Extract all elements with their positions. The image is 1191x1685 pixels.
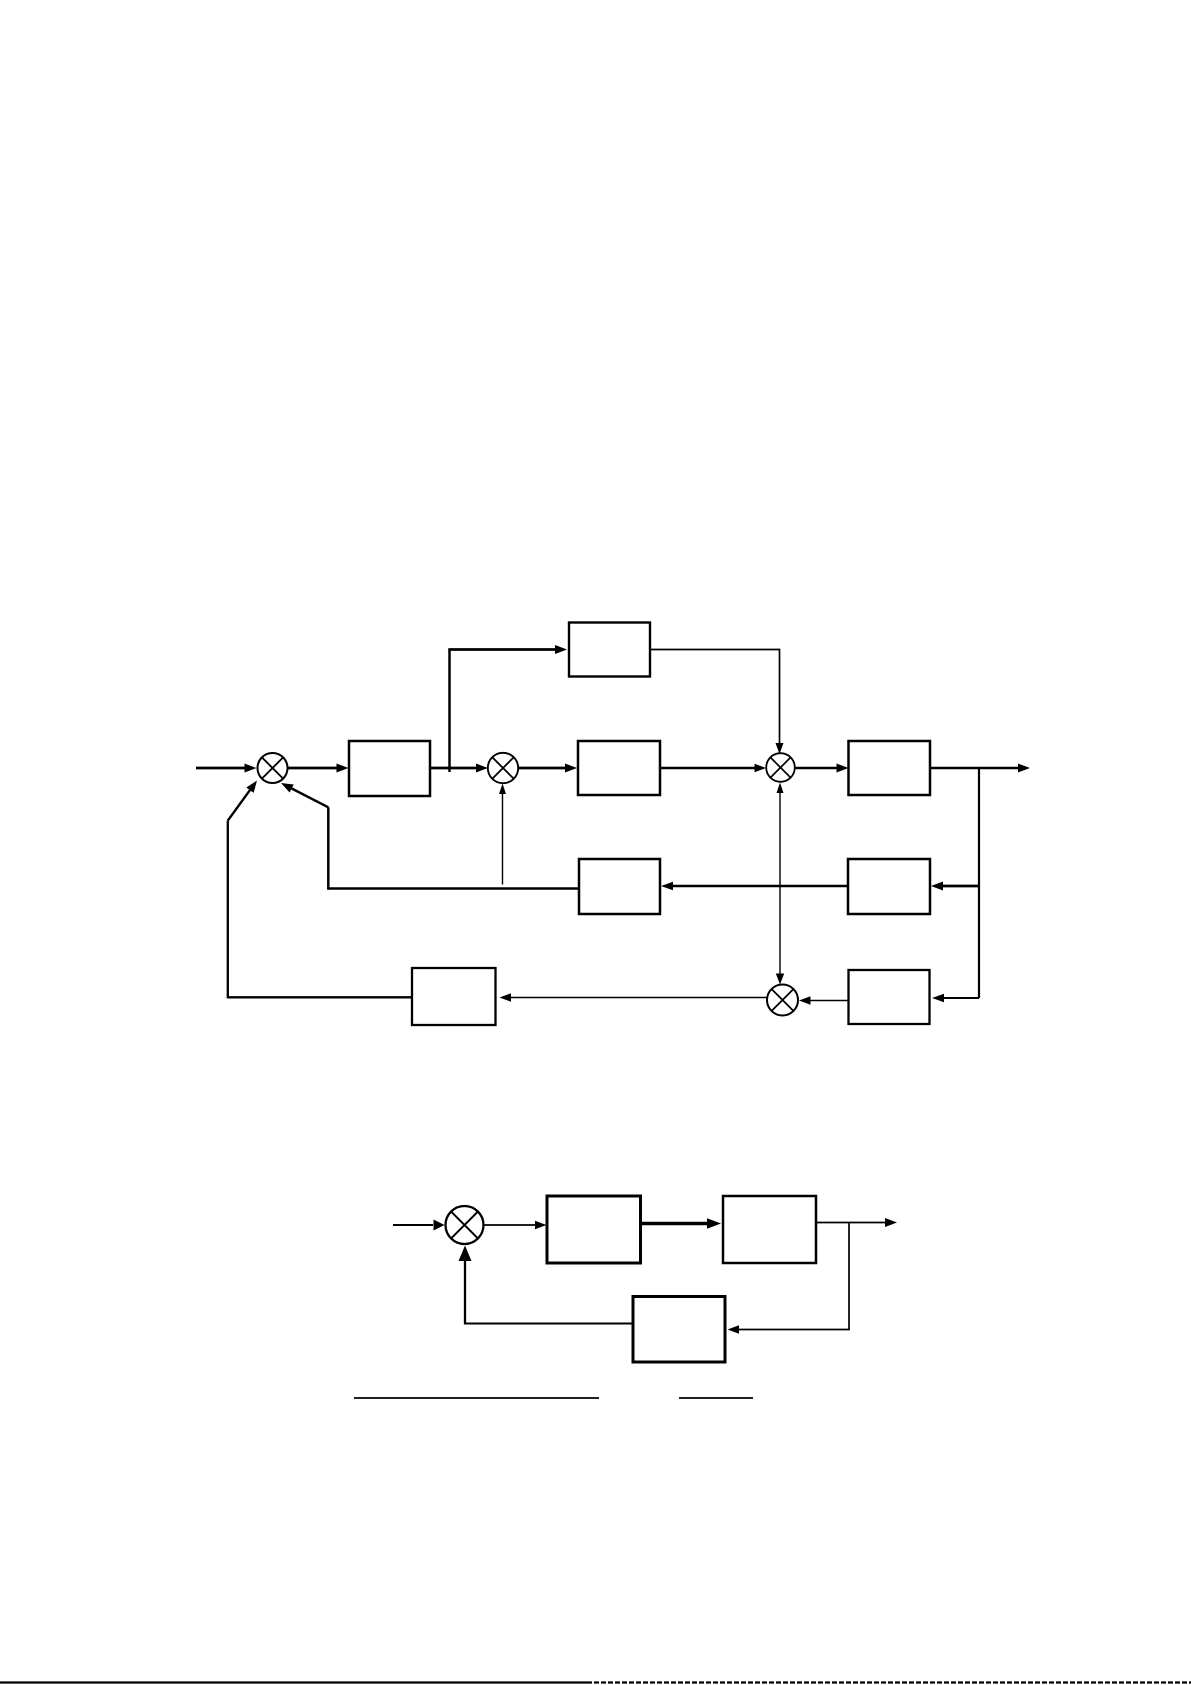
block G3 xyxy=(849,741,931,795)
block G1 xyxy=(349,741,430,796)
wire branch vertical right xyxy=(978,768,980,998)
diagram 1 : input wire xyxy=(196,764,257,773)
wire G2 to S3 xyxy=(660,764,766,773)
block P3 (feedback) xyxy=(633,1297,725,1363)
diagram 2 : input wire xyxy=(393,1220,445,1231)
block G2 xyxy=(578,741,660,795)
block G4 (top) xyxy=(569,623,650,677)
block H4 (bottom left) xyxy=(412,968,496,1025)
wire H4 to S1 (with corner and diagonal) xyxy=(228,781,413,999)
summing junction S1 xyxy=(258,753,288,783)
page footer rule dashed part xyxy=(587,1681,1191,1683)
block P1 xyxy=(547,1196,641,1263)
summing junction S3 xyxy=(766,753,795,782)
wire S4 to block H4 xyxy=(500,993,768,1001)
wire S3 to block G3 xyxy=(795,764,849,773)
wire P1 to block P2 (thick) xyxy=(641,1218,722,1228)
wire G1 to S2 xyxy=(430,764,488,773)
wire G4 down to S3 xyxy=(650,649,784,754)
summing junction S4 xyxy=(767,985,798,1016)
wire S5 to block P1 xyxy=(484,1221,547,1230)
wire to block H1 (mid right) xyxy=(931,882,979,891)
wire S2 to block G2 xyxy=(519,764,578,773)
underline blank 1 xyxy=(354,1397,599,1399)
page footer rule solid part xyxy=(0,1681,587,1683)
wire P3 to S5 xyxy=(459,1246,635,1325)
block H3 (bottom right) xyxy=(849,970,930,1024)
output wire with branch node xyxy=(930,764,1030,773)
node branch wire up to block G4 xyxy=(448,645,567,772)
wire H3 to S4 xyxy=(799,996,849,1004)
wire branch down to block P3 xyxy=(728,1223,850,1334)
underline blank 2 xyxy=(679,1397,753,1399)
wire S1 to block G1 xyxy=(288,764,349,773)
wire S3 to S4 vertical (arrows both ends) xyxy=(776,783,784,985)
wire to block H3 (bottom right) xyxy=(932,994,979,1002)
block H1 (mid right) xyxy=(848,859,930,914)
wire H1 to block H2 xyxy=(661,882,848,891)
summing junction S2 xyxy=(488,753,518,783)
output wire with branch node xyxy=(816,1218,897,1227)
wire tap up to S2 xyxy=(499,784,506,885)
block P2 xyxy=(723,1196,816,1263)
wire H2 to S1 (with corner and diagonal) xyxy=(281,783,580,890)
block H2 (mid left) xyxy=(579,859,660,914)
summing junction S5 xyxy=(446,1206,484,1244)
